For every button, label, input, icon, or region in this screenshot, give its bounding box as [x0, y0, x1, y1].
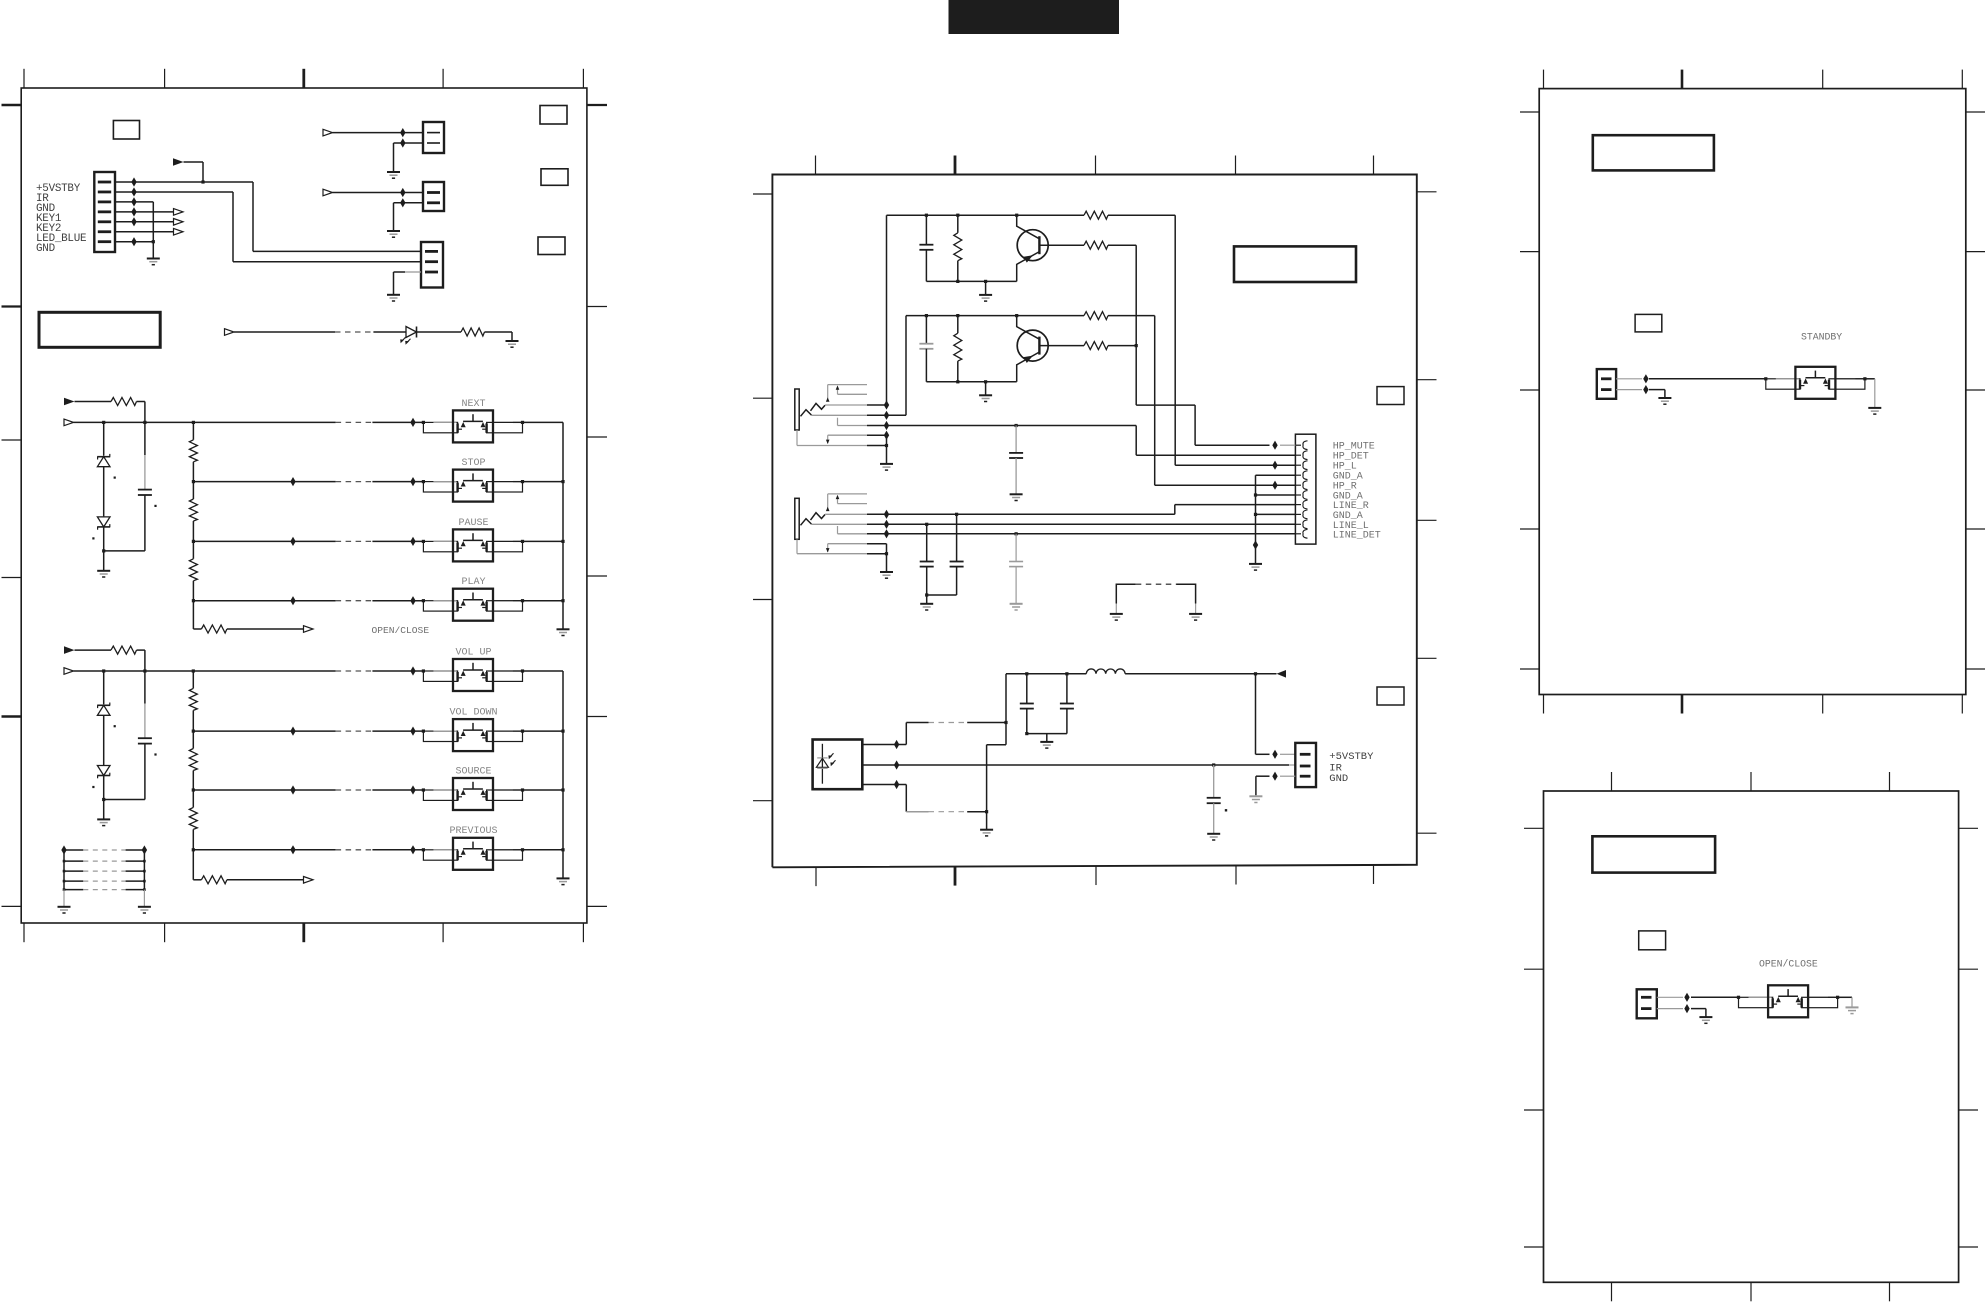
ground below J2	[387, 171, 400, 173]
bus input arrow	[64, 668, 74, 675]
resistor R3 (bias)	[957, 215, 959, 233]
capacitor C9	[1026, 674, 1028, 703]
switch SOURCE	[422, 788, 425, 791]
ladder junction	[192, 730, 195, 733]
wire R1 to ground	[485, 331, 513, 333]
capacitor C (debounce)	[144, 671, 146, 704]
jack contact line B	[838, 503, 868, 505]
left block bottom fold ticks	[23, 923, 25, 942]
LINE tip wire (LINE_R)	[867, 513, 1175, 515]
connector J3 body (middle right)	[423, 182, 444, 211]
base wire to HP_MUTE route	[1108, 244, 1136, 246]
ladder junction	[192, 480, 195, 483]
svg-text:+5VSTBY: +5VSTBY	[1329, 751, 1374, 763]
jack sleeve body	[795, 389, 799, 430]
ladder junction	[192, 848, 195, 851]
jumper ground left	[1110, 613, 1123, 615]
inductor L1	[1086, 669, 1125, 674]
output arrow	[304, 877, 314, 884]
svg-text:VOL DOWN: VOL DOWN	[449, 708, 497, 719]
middle block title box	[1234, 246, 1356, 282]
stray dot c	[154, 753, 156, 755]
ladder resistor	[189, 499, 197, 521]
switch OPEN/CLOSE	[1737, 996, 1740, 999]
small reference box (left block top-left)	[113, 121, 139, 140]
capacitor C11 (IR line)	[1213, 765, 1215, 797]
svg-text:STANDBY: STANDBY	[1801, 332, 1842, 343]
wire OPEN/CLOSE switch to ground	[1838, 996, 1852, 998]
svg-text:PREVIOUS: PREVIOUS	[449, 826, 497, 837]
J7 pin1 wire to switch	[1616, 378, 1642, 380]
black title bar (top center)	[949, 0, 1120, 34]
capacitor C4	[925, 316, 927, 344]
right top block top fold ticks	[1543, 70, 1545, 89]
transistor Q1	[1017, 230, 1048, 261]
rail2 drop to HP_R row	[1154, 316, 1156, 486]
LED D1	[406, 327, 417, 338]
wire switch STOP to ground bus	[523, 481, 564, 483]
left block left fold ticks	[2, 104, 22, 107]
wire switch PREVIOUS to ground bus	[523, 849, 564, 851]
stray dot b	[92, 786, 94, 788]
svg-text:GND: GND	[36, 243, 55, 255]
IR module +5V wire	[862, 744, 906, 746]
input arrow (pull-up feed)	[64, 646, 75, 654]
ladder junction	[192, 540, 195, 543]
stray dot IR	[1225, 809, 1227, 811]
ribbon ground left	[58, 906, 71, 908]
ribbon junction dots	[63, 860, 66, 863]
key row wire	[193, 481, 335, 483]
wire into J3 pin1 with input arrow	[323, 189, 333, 196]
clamp diode D (lower)	[97, 766, 110, 776]
jack contact line A	[828, 493, 867, 495]
jack mute contact	[828, 434, 867, 436]
jack mute contact	[828, 543, 867, 545]
HP_R row into pin5	[1155, 484, 1296, 486]
stray dot a	[114, 725, 116, 727]
J8 pin2 wire to ground	[1657, 1008, 1683, 1010]
switch STOP	[422, 480, 425, 483]
ground at right bus	[557, 877, 570, 879]
clamp diode D (upper)	[103, 671, 105, 704]
right bottom block border frame	[1544, 791, 1959, 1282]
jack tip contact spring	[811, 513, 826, 520]
switch PLAY	[422, 599, 425, 602]
svg-text:OPEN/CLOSE: OPEN/CLOSE	[1759, 959, 1818, 970]
+5V drop to connector	[1255, 674, 1257, 755]
ladder resistor	[189, 807, 197, 829]
+5VSTBY off-page arrow	[1277, 670, 1287, 678]
ground stub Q2	[985, 382, 987, 395]
connector J2 body (top right)	[423, 122, 444, 153]
capacitor C5 (HP_DET)	[1015, 426, 1017, 453]
resistor R2 (rail1)	[1084, 211, 1108, 219]
svg-text:STOP: STOP	[461, 458, 485, 469]
stray dot b	[92, 537, 94, 539]
GND_A stub pin8	[1256, 513, 1296, 515]
ladder resistor	[189, 559, 197, 581]
middle block top fold ticks	[815, 156, 817, 175]
ladder resistor	[189, 749, 197, 771]
left block border frame	[21, 88, 587, 923]
HP sleeve wire to ground	[867, 445, 887, 447]
jack sleeve body	[795, 498, 799, 539]
right top marker square	[1635, 314, 1662, 332]
thick label box (LED section)	[39, 312, 160, 347]
reference square right edge 3	[538, 237, 565, 255]
key row wire	[193, 540, 335, 542]
ribbon left bus	[63, 850, 65, 890]
wire switch PLAY to ground bus	[523, 600, 564, 602]
ribbon diamonds	[61, 845, 66, 854]
wire to output arrow	[227, 628, 304, 630]
reference square right edge 2	[541, 169, 568, 186]
key row wire	[193, 789, 335, 791]
right top block title box	[1593, 135, 1714, 170]
jack sleeve lead	[796, 430, 798, 446]
Q2 left vertical to jack	[905, 316, 907, 416]
ground below J1	[147, 258, 160, 260]
stray dot c	[154, 505, 156, 507]
jack contact line A	[828, 384, 867, 386]
connector J6 pin bars	[1300, 753, 1311, 756]
middle block border frame	[772, 175, 1416, 868]
right ground bus	[562, 422, 564, 629]
transistor Q2	[1017, 330, 1048, 361]
GND_A bus and pin4	[1256, 474, 1296, 476]
right bottom block title box	[1592, 836, 1715, 872]
right bottom block bottom fold ticks	[1611, 1282, 1613, 1301]
wire resistor to bus	[137, 649, 145, 651]
key row wire	[193, 600, 335, 602]
capacitor C (debounce)	[144, 422, 146, 455]
rail to +5VSTBY arrow	[1125, 673, 1276, 675]
IR photodiode symbol	[821, 744, 823, 784]
middle block marker square 1	[1377, 387, 1404, 405]
input arrow (pull-up feed)	[64, 398, 75, 406]
connector J5 pin hooks	[1295, 444, 1301, 446]
right top block border frame	[1539, 89, 1966, 695]
svg-text:LINE_DET: LINE_DET	[1333, 530, 1381, 541]
right bottom block left fold ticks	[1524, 827, 1544, 829]
switch NEXT	[422, 421, 425, 424]
capacitor C6	[926, 524, 928, 561]
connector J7 body (2-pin)	[1597, 369, 1616, 399]
svg-text:SOURCE: SOURCE	[455, 766, 491, 777]
ground GND_A bus	[1249, 563, 1262, 565]
stray dot a	[114, 477, 116, 479]
resistor R4 (Q1 base)	[1084, 241, 1108, 249]
right bottom block right fold ticks	[1959, 827, 1978, 829]
middle block right fold ticks	[1417, 191, 1437, 193]
wire J4 pin3 to ground	[405, 271, 421, 273]
LINE detect wire (LINE_DET)	[867, 533, 1295, 535]
jumper ground right	[1189, 613, 1202, 615]
connector J5 body (10-pin)	[1295, 434, 1316, 544]
wire GND from J1 pin7	[115, 241, 153, 243]
wire J2 pin2 to ground	[394, 142, 424, 144]
HP jack ring wire to Q2	[867, 414, 887, 416]
ladder junction	[192, 599, 195, 602]
connector J2 pins	[427, 132, 440, 134]
ground OPEN/CLOSE switch	[1846, 1006, 1859, 1008]
IR module ground wire	[862, 784, 906, 786]
wire switch SOURCE to ground bus	[523, 789, 564, 791]
HP detect wire (HP_DET)	[867, 425, 1136, 427]
J6 GND pin wire	[1280, 775, 1295, 777]
resistor R5 (rail2)	[1084, 312, 1108, 320]
wire switch NEXT to ground bus	[523, 421, 564, 423]
switch VOL DOWN	[422, 730, 425, 733]
ground stub Q1	[985, 281, 987, 294]
jack tip row lead	[825, 513, 867, 515]
link to filter rail	[1005, 674, 1007, 745]
svg-text:VOL UP: VOL UP	[455, 647, 491, 658]
capacitor C3	[925, 215, 927, 244]
ground J6	[1249, 795, 1262, 797]
ladder tail to output resistor	[192, 601, 194, 629]
Q2 top rail wire	[906, 315, 1084, 317]
ground filter caps	[1040, 741, 1053, 743]
diode-capacitor junction wire	[102, 549, 105, 552]
wire KEY2 from J1 pin5	[115, 221, 174, 223]
clamp diode D (lower)	[97, 517, 110, 527]
input arrow to +5VSTBY net	[173, 158, 184, 166]
right bottom marker square	[1639, 931, 1666, 950]
reference square right edge 1	[540, 106, 567, 125]
jack ring contact spring	[801, 519, 812, 526]
ribbon ground leads	[63, 890, 65, 907]
ladder resistor	[189, 440, 197, 462]
resistor R7 (Q2 base)	[1084, 342, 1108, 350]
+5V filter rail	[1006, 673, 1086, 675]
ladder resistor	[189, 688, 197, 710]
ground C6/C7	[920, 603, 933, 605]
middle block left fold ticks	[753, 193, 772, 195]
ribbon right bus	[143, 850, 145, 890]
wire into J2 pin1 with input arrow	[323, 129, 333, 136]
GND_A stub pin6	[1256, 494, 1296, 496]
wire switch VOL UP to ground bus	[523, 670, 564, 672]
Q1 left vertical to jack	[886, 215, 888, 405]
wire KEY1 from J1 pin4	[115, 211, 174, 213]
key bus wire row 1	[74, 421, 336, 423]
ground Q2	[979, 394, 992, 396]
pull-up resistor	[111, 646, 137, 654]
Q2 base wire to junction	[1108, 345, 1136, 347]
ladder tail to output resistor	[192, 850, 194, 880]
wire switch PAUSE to ground bus	[523, 540, 564, 542]
ground at right bus	[557, 628, 570, 630]
jack ring contact spring	[801, 410, 812, 417]
svg-text:PAUSE: PAUSE	[458, 518, 488, 529]
jack detect contact	[838, 425, 868, 427]
jack contact line B	[838, 393, 868, 395]
switch STANDBY	[1764, 377, 1767, 380]
rail2 to corner	[1108, 315, 1155, 317]
solder jumper with dashes	[1116, 584, 1136, 603]
left block top fold ticks	[23, 69, 25, 88]
key row wire	[193, 730, 335, 732]
rail1 drop to HP_L row	[1174, 215, 1176, 465]
ladder junction	[192, 788, 195, 791]
switch PREVIOUS	[422, 848, 425, 851]
HP_L row into pin3	[1175, 464, 1295, 466]
cap common wire	[927, 594, 957, 596]
J8 pin1 wire to switch	[1657, 996, 1683, 998]
key bus wire row 1	[74, 670, 336, 672]
connector J3 pin bars	[427, 191, 440, 194]
HP mute contact wire to ground	[867, 434, 887, 436]
key row wire	[193, 849, 335, 851]
output arrow	[304, 626, 314, 633]
capacitor C8 (LINE_DET)	[1015, 534, 1017, 561]
jack tip row lead	[825, 404, 867, 406]
ground below J4	[387, 294, 400, 296]
J7 pin2 wire to ground	[1616, 389, 1642, 391]
connector J4 pin bars	[425, 250, 438, 253]
connector J6 body (3-pin)	[1295, 743, 1316, 787]
right ground bus	[562, 671, 564, 878]
wire resistor to bus	[137, 401, 145, 403]
wire IR from J1 pin2	[115, 191, 233, 193]
jack detect contact	[838, 533, 868, 535]
jack sleeve lead	[796, 539, 798, 553]
ribbon bundle (bottom left)	[64, 849, 83, 851]
right top block bottom fold ticks	[1543, 695, 1545, 714]
switch PAUSE	[422, 540, 425, 543]
resistor R6 (bias)	[957, 316, 959, 334]
middle block bottom fold ticks	[815, 867, 817, 886]
connector J4 body (3-pin)	[421, 242, 443, 288]
keypad connector J1 pin bars	[98, 181, 111, 184]
ground J8	[1699, 1016, 1712, 1018]
ground below clamp network	[97, 818, 110, 820]
ground below clamp network	[97, 570, 110, 572]
Q1 bottom rail	[926, 280, 1016, 282]
LINE mute contact wire	[867, 543, 887, 545]
svg-text:NEXT: NEXT	[461, 399, 485, 410]
svg-text:PLAY: PLAY	[461, 577, 485, 588]
wire STANDBY switch to ground	[1865, 378, 1875, 380]
ground below J3	[387, 230, 400, 232]
jack tip contact spring	[811, 403, 826, 410]
rail1 to corner	[1108, 214, 1175, 216]
connector J8 pin bars	[1641, 996, 1652, 999]
IR receiver module U1 box	[813, 740, 863, 790]
ribbon ground right	[138, 906, 151, 908]
ground C11	[1207, 833, 1220, 835]
output resistor	[201, 876, 227, 884]
resistor R1	[461, 328, 485, 336]
ground STANDBY switch	[1868, 407, 1881, 409]
capacitor C10	[1066, 674, 1068, 703]
ground C8	[1010, 603, 1023, 605]
ground IR return	[980, 829, 993, 831]
right top block right fold ticks	[1966, 111, 1985, 113]
svg-text:OPEN/CLOSE: OPEN/CLOSE	[372, 625, 430, 636]
connector J8 body (2-pin)	[1637, 989, 1657, 1018]
ground HP jack	[880, 463, 893, 465]
svg-text:GND: GND	[1329, 773, 1348, 785]
HP jack tip wire	[867, 404, 887, 406]
switch VOL UP	[422, 669, 425, 672]
jack ring row lead	[812, 414, 868, 416]
wire +5VSTBY from J1 pin1	[115, 181, 253, 183]
pull-up resistor	[111, 398, 137, 406]
ground LINE jack	[880, 571, 893, 573]
LINE sleeve wire to ground	[867, 553, 887, 555]
Q1 top rail wire	[887, 214, 1085, 216]
wire LED to resistor R1	[417, 331, 462, 333]
wire to output arrow	[227, 879, 304, 881]
middle block marker square 2	[1377, 687, 1404, 705]
ground J7	[1658, 397, 1671, 399]
left block right fold ticks	[587, 104, 607, 106]
jack ring row lead	[812, 523, 868, 525]
ground after R1	[506, 340, 519, 342]
diode-capacitor junction wire	[102, 798, 105, 801]
capacitor C7	[956, 514, 958, 561]
LINE ring wire (LINE_L)	[867, 523, 1295, 525]
right bottom block top fold ticks	[1611, 772, 1613, 791]
wire LED_BLUE from J1 pin6	[115, 231, 174, 233]
LED drive wire with input arrow	[225, 329, 235, 336]
Q2 bottom rail	[926, 381, 1016, 383]
HP_MUTE row into pin1	[1195, 444, 1269, 446]
right top block left fold ticks	[1520, 111, 1539, 113]
filter cap common rail	[1027, 733, 1067, 735]
ground C5	[1010, 493, 1023, 495]
output resistor	[201, 625, 227, 633]
HP_DET row into pin2	[1275, 454, 1295, 456]
wire switch VOL DOWN to ground bus	[523, 730, 564, 732]
ground Q1	[979, 294, 992, 296]
connector J7 pin bars	[1601, 377, 1612, 380]
clamp diode D (upper)	[103, 422, 105, 455]
wire J3 pin2 to ground	[394, 202, 424, 204]
IR module signal wire	[862, 764, 1213, 766]
bus input arrow	[64, 419, 74, 426]
keypad connector J1 body	[94, 172, 115, 252]
wire GND from J1 pin3	[115, 201, 153, 203]
